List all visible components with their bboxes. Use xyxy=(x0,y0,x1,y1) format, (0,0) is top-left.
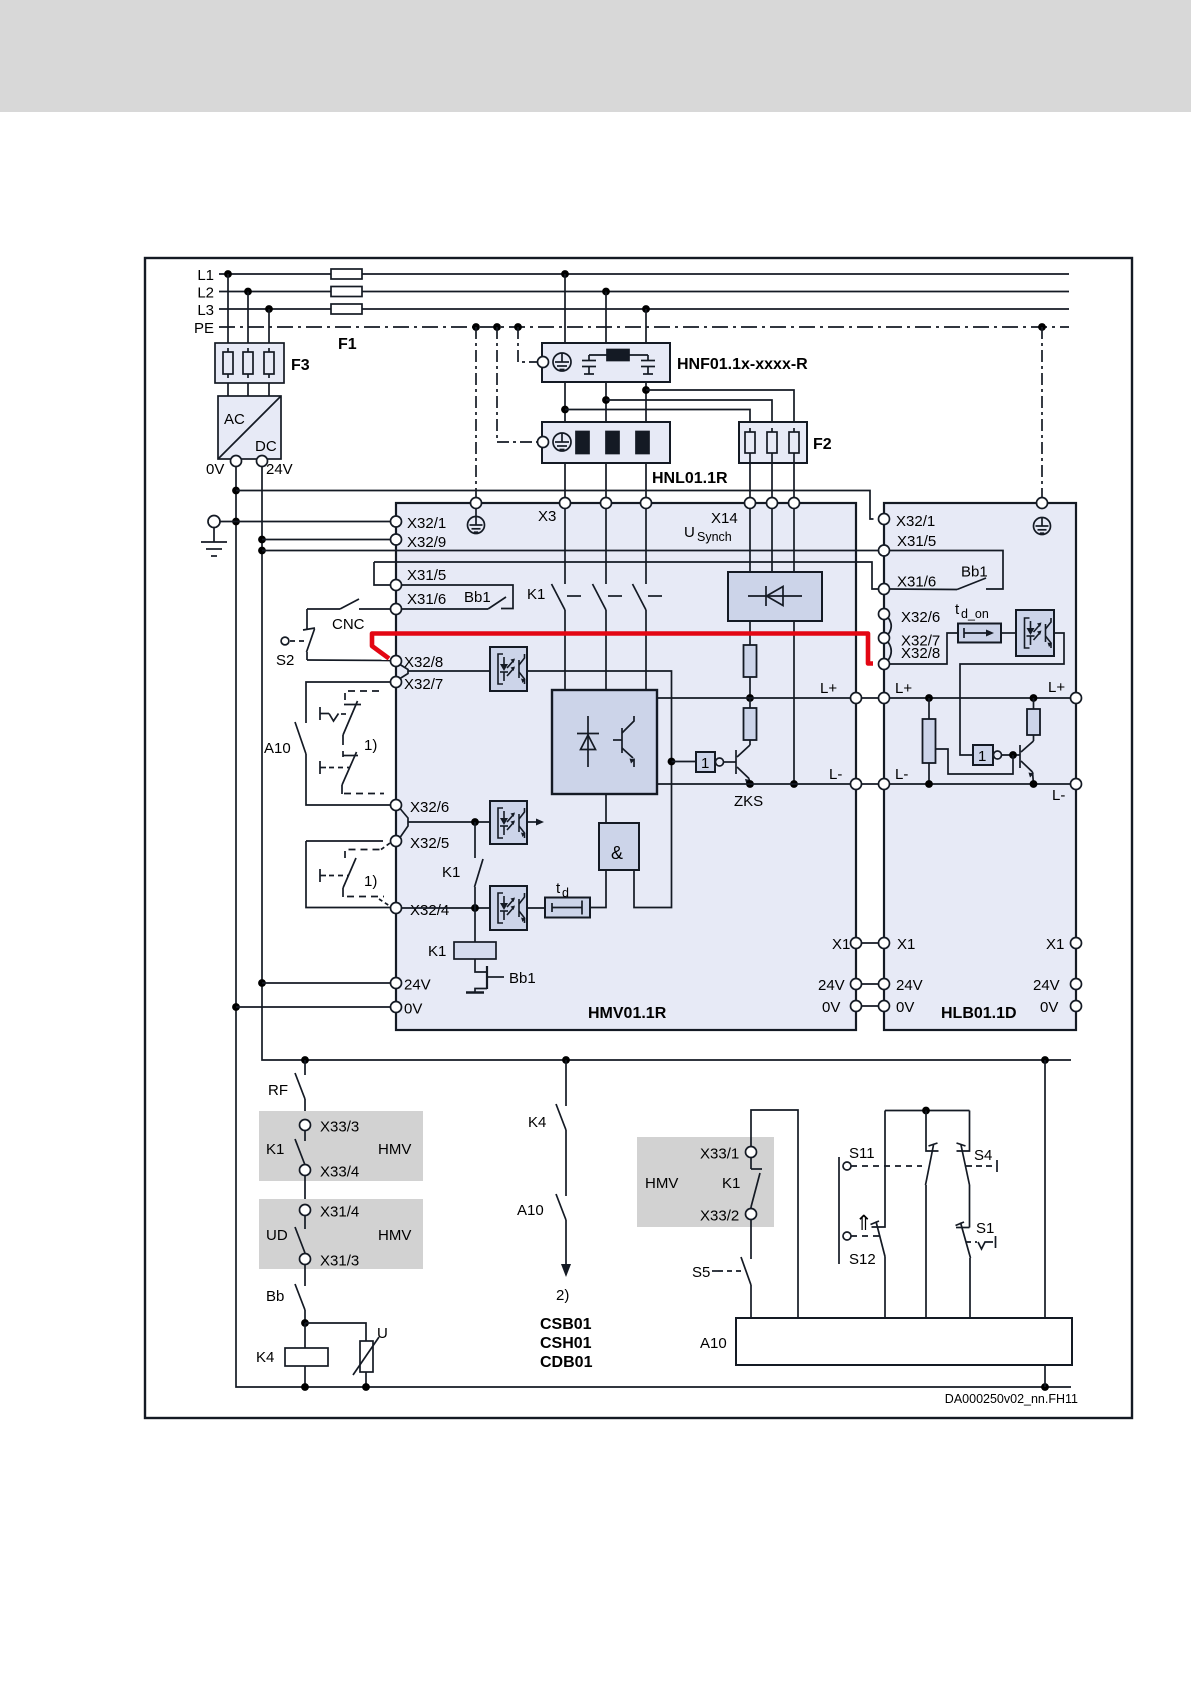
svg-text:1): 1) xyxy=(364,873,377,890)
wire X32/4 to optocoupler3 xyxy=(402,907,491,909)
terminal HLB X31/6 xyxy=(879,584,890,595)
S5 actuator dashes xyxy=(712,1270,744,1272)
svg-text:CSH01: CSH01 xyxy=(540,1335,592,1352)
wire 24V to HLB X31/5 xyxy=(262,550,879,552)
terminal X14-1 xyxy=(745,498,756,509)
svg-text:S5: S5 xyxy=(692,1264,710,1281)
switch S12 actuator xyxy=(843,1232,881,1240)
svg-text:S2: S2 xyxy=(276,652,294,669)
gate 1 HLB xyxy=(973,745,1002,765)
delay element td_on xyxy=(958,624,1001,643)
contact S12 xyxy=(871,1111,886,1319)
S1 actuator dash xyxy=(966,1236,996,1249)
svg-text:Bb: Bb xyxy=(266,1288,284,1305)
svg-text:S12: S12 xyxy=(849,1251,876,1268)
terminal X33/1 xyxy=(746,1147,757,1158)
wire Ra to L+ xyxy=(749,677,751,698)
junction 0V-module xyxy=(232,1003,240,1011)
synch rectifier block xyxy=(728,572,822,621)
wire merge to optocoupler1 xyxy=(408,670,490,672)
wires X14 into synch rectifier xyxy=(750,509,794,573)
svg-text:X32/9: X32/9 xyxy=(407,534,446,551)
svg-text:L+: L+ xyxy=(895,680,912,697)
junction gate1 input xyxy=(668,758,676,766)
module HLB01.1D body xyxy=(884,503,1076,1030)
terminal HMV X32/6 xyxy=(391,800,402,811)
svg-text:L-: L- xyxy=(895,766,908,783)
svg-text:ZKS: ZKS xyxy=(734,793,763,810)
wire 0V rail vertical+bottom xyxy=(236,467,1071,1388)
wire L- link between modules xyxy=(862,783,879,785)
svg-text:X1: X1 xyxy=(832,936,850,953)
svg-text:⇑: ⇑ xyxy=(855,1212,873,1235)
jumper X32/6-X32/7 xyxy=(888,618,891,635)
junction bottom rail A10 xyxy=(1041,1383,1049,1391)
terminal HMV PE top xyxy=(471,498,482,509)
wire td_on to opto xyxy=(1001,632,1016,634)
contact K1 mid xyxy=(475,822,484,908)
svg-text:X33/4: X33/4 xyxy=(320,1164,359,1181)
contact Bb xyxy=(295,1265,305,1324)
svg-text:Bb1: Bb1 xyxy=(464,589,491,606)
choke HNL01.1R xyxy=(538,422,671,463)
wire L- HLB internal xyxy=(890,783,1071,785)
svg-text:1: 1 xyxy=(978,748,986,765)
svg-text:d_on: d_on xyxy=(961,607,989,621)
junction PE-1 xyxy=(472,323,480,331)
terminal HLB L+ right xyxy=(1071,693,1082,704)
wire L2 down through filters xyxy=(605,292,607,498)
wire A10 to X32/6 xyxy=(306,754,391,805)
svg-text:K4: K4 xyxy=(256,1349,274,1366)
terminal HMV 0V right xyxy=(851,1001,862,1012)
junction bottom rail U xyxy=(362,1383,370,1391)
wire HNF to F2 fuse2 xyxy=(606,400,772,432)
junction L2-F3 xyxy=(244,288,252,296)
optocoupler U-opto3 (X32/4) xyxy=(490,886,527,930)
junction L3-HNF xyxy=(642,305,650,313)
svg-text:HNF01.1x-xxxx-R: HNF01.1x-xxxx-R xyxy=(677,356,808,373)
svg-text:24V: 24V xyxy=(1033,977,1060,994)
terminal HMV X31/6 xyxy=(391,604,402,615)
svg-text:K1: K1 xyxy=(722,1175,740,1192)
contact UD xyxy=(295,1216,305,1254)
svg-text:X32/1: X32/1 xyxy=(407,515,446,532)
junction L1-HNF xyxy=(561,270,569,278)
terminal 24V of AC/DC xyxy=(257,456,268,467)
svg-text:24V: 24V xyxy=(404,977,431,994)
terminal HLB X1 left xyxy=(879,938,890,949)
terminal HLB L+ left xyxy=(879,693,890,704)
S-group top bar xyxy=(885,1110,970,1112)
junction HNF-L2 out xyxy=(602,396,610,404)
fuse F1 on L3 xyxy=(331,304,362,314)
terminal HMV 24V xyxy=(391,978,402,989)
contact K1 phase2 xyxy=(593,509,623,691)
varistor U xyxy=(353,1337,379,1387)
junction L3-F3 xyxy=(265,305,273,313)
contact Bb1 bottom of K1 coil xyxy=(466,959,504,993)
resistor Rb xyxy=(744,698,757,740)
svg-text:1): 1) xyxy=(364,737,377,754)
svg-text:AC: AC xyxy=(224,411,245,428)
terminal HMV X1 xyxy=(851,938,862,949)
terminal HMV X32/5 xyxy=(391,836,402,847)
junction right leg L- xyxy=(790,780,798,788)
relay coil K1 xyxy=(454,908,496,959)
fuse block F3 xyxy=(215,343,284,383)
junction opto2 tap xyxy=(471,818,479,826)
contact A10 left xyxy=(295,722,306,754)
svg-text:X32/8: X32/8 xyxy=(404,654,443,671)
svg-text:X33/3: X33/3 xyxy=(320,1119,359,1136)
wire 24V link xyxy=(862,983,879,985)
svg-text:X31/6: X31/6 xyxy=(407,591,446,608)
svg-text:X32/1: X32/1 xyxy=(896,513,935,530)
terminal X31/4 xyxy=(300,1205,311,1216)
interlock contact block 1) upper xyxy=(320,691,384,794)
module HMV01.1R body xyxy=(396,503,856,1030)
svg-text:CSB01: CSB01 xyxy=(540,1316,592,1333)
svg-text:HMV01.1R: HMV01.1R xyxy=(588,1005,667,1022)
transistor HLB xyxy=(1020,735,1034,784)
mains filter HNF01.1x xyxy=(538,343,671,382)
S4 actuator dash xyxy=(966,1160,997,1172)
svg-text:2): 2) xyxy=(556,1287,569,1304)
gray box HMV X33 xyxy=(259,1111,423,1181)
svg-text:L2: L2 xyxy=(197,285,214,302)
svg-text:U: U xyxy=(377,1325,388,1342)
junction PE-3 xyxy=(514,323,522,331)
contact K1 aux xyxy=(295,1131,305,1166)
terminal HMV X32/1 xyxy=(391,516,402,527)
svg-text:PE: PE xyxy=(194,320,214,337)
wire ground to HMV X32/1 xyxy=(220,521,391,523)
wire R1 tap to base xyxy=(936,749,1014,774)
svg-text:L3: L3 xyxy=(197,302,214,319)
junction PE-right xyxy=(1038,323,1046,331)
svg-text:HMV: HMV xyxy=(645,1175,678,1192)
svg-text:CDB01: CDB01 xyxy=(540,1354,593,1371)
terminal HMV L- xyxy=(851,779,862,790)
junction Bb-K4 xyxy=(301,1319,309,1327)
optocoupler HLB xyxy=(1016,610,1054,656)
wire HNF to F2 fuse3 xyxy=(646,390,794,432)
terminal HMV X32/8 xyxy=(391,656,402,667)
terminal HLB L- right xyxy=(1071,779,1082,790)
terminal HMV X32/7 xyxy=(391,677,402,688)
wire L1 xyxy=(197,267,1069,284)
switch S2 xyxy=(303,609,391,661)
wire HNF to F2 fuse1 xyxy=(565,410,750,433)
wire 24V rail vertical+lower rail xyxy=(262,467,1071,1061)
relay coil K4 xyxy=(285,1323,328,1387)
junction HLB L- b xyxy=(1030,780,1038,788)
svg-text:X32/8: X32/8 xyxy=(901,645,940,662)
terminal HLB 0V right xyxy=(1071,1001,1082,1012)
terminal HLB X32/6 xyxy=(879,609,890,620)
wire L2 xyxy=(197,285,1069,302)
header gray band xyxy=(0,0,1191,112)
svg-text:S1: S1 xyxy=(976,1220,994,1237)
svg-text:1: 1 xyxy=(701,755,709,772)
svg-text:0V: 0V xyxy=(1040,999,1058,1016)
wire L3 down through filters xyxy=(645,309,647,498)
junction ZKS xyxy=(746,780,754,788)
svg-text:Bb1: Bb1 xyxy=(961,564,988,581)
junction bottom rail K4 xyxy=(301,1383,309,1391)
junction 0V-a xyxy=(232,487,240,495)
wire X33/4 to X31/4 xyxy=(304,1176,306,1205)
schematic frame xyxy=(145,258,1132,1418)
svg-text:0V: 0V xyxy=(206,461,224,478)
svg-text:X33/2: X33/2 xyxy=(700,1208,739,1225)
terminal 0V of AC/DC xyxy=(231,456,242,467)
junction 24V-X315 xyxy=(258,547,266,555)
PE dash-dot drop to HMV xyxy=(475,327,477,498)
S11 S12 mechanical link xyxy=(838,1157,840,1264)
svg-text:HLB01.1D: HLB01.1D xyxy=(941,1005,1017,1022)
terminal HLB L- left xyxy=(879,779,890,790)
svg-text:X32/7: X32/7 xyxy=(404,676,443,693)
wire X32/8 to td_on xyxy=(890,633,959,664)
junction 0V-b xyxy=(232,518,240,526)
optocoupler U-opto1 (X32/8-X32/7) xyxy=(490,647,527,691)
PE dash-dot drop to HLB xyxy=(1041,327,1043,498)
svg-text:K1: K1 xyxy=(266,1141,284,1158)
wire HMV X31/5 loop xyxy=(374,562,391,585)
junction HNF-L1 out xyxy=(561,406,569,414)
svg-text:0V: 0V xyxy=(404,1001,422,1018)
wire td to AND gate xyxy=(590,870,606,908)
delay element td xyxy=(545,898,590,918)
wire 0V link xyxy=(862,1005,879,1007)
contact S4 xyxy=(957,1111,970,1228)
contact K4 xyxy=(556,1060,566,1196)
wire L3 to F3 xyxy=(268,309,270,343)
junction 24V-X329 xyxy=(258,536,266,544)
fuse block F2 xyxy=(739,422,807,463)
wire L1 to F3 xyxy=(227,274,229,343)
wire L3 xyxy=(197,302,1069,319)
svg-text:A10: A10 xyxy=(700,1335,727,1352)
wire gate1 to base xyxy=(724,761,737,763)
svg-text:X32/6: X32/6 xyxy=(901,609,940,626)
svg-text:X31/6: X31/6 xyxy=(897,574,936,591)
junction 24V rail RF xyxy=(301,1056,309,1064)
svg-text:X31/3: X31/3 xyxy=(320,1253,359,1270)
wire L+ HMV xyxy=(657,697,851,699)
wire gate1 input xyxy=(672,761,697,763)
svg-text:X32/4: X32/4 xyxy=(410,902,449,919)
svg-text:S4: S4 xyxy=(974,1147,992,1164)
contact K1 X33 xyxy=(751,1158,762,1209)
junction S-bar xyxy=(922,1107,930,1115)
junction PE-2 xyxy=(493,323,501,331)
PE symbol HMV xyxy=(468,509,485,534)
wire X32/7 loop left xyxy=(306,682,391,723)
svg-text:X1: X1 xyxy=(1046,936,1064,953)
wire AND to inverter xyxy=(605,794,607,823)
svg-text:DA000250v02_nn.FH11: DA000250v02_nn.FH11 xyxy=(945,1392,1078,1406)
power supply AC/DC xyxy=(218,396,281,459)
contact Bb1 HMV xyxy=(402,585,514,609)
junction HLB L- a xyxy=(925,780,933,788)
contact S1 xyxy=(956,1222,971,1318)
wire L+ link between modules xyxy=(862,697,879,699)
terminal X3-1 xyxy=(560,498,571,509)
wire X32/6-X32/5 merge xyxy=(400,809,408,838)
terminal X33/3 xyxy=(300,1120,311,1131)
svg-text:RF: RF xyxy=(268,1082,288,1099)
svg-text:X3: X3 xyxy=(538,508,556,525)
gray box HMV X31 xyxy=(259,1199,423,1269)
wire 0V to HLB X32/1 xyxy=(236,491,874,520)
svg-text:X32/6: X32/6 xyxy=(410,799,449,816)
svg-text:A10: A10 xyxy=(517,1202,544,1219)
svg-text:HMV: HMV xyxy=(378,1227,411,1244)
terminal X33/4 xyxy=(300,1165,311,1176)
terminal HMV 24V right xyxy=(851,979,862,990)
resistor HLB R1 xyxy=(923,698,936,784)
svg-text:0V: 0V xyxy=(896,999,914,1016)
svg-text:K1: K1 xyxy=(527,586,545,603)
wire L1 down through filters xyxy=(564,274,566,498)
jumper X32/7-X32/8 xyxy=(888,642,891,661)
terminal X3-3 xyxy=(641,498,652,509)
wire 0V to rail xyxy=(236,1006,391,1008)
svg-text:DC: DC xyxy=(255,438,277,455)
svg-text:F3: F3 xyxy=(291,357,310,374)
contact K1 phase1 xyxy=(552,509,582,691)
svg-text:L1: L1 xyxy=(197,267,214,284)
terminal HMV L+ xyxy=(851,693,862,704)
terminal X14-2 xyxy=(767,498,778,509)
optocoupler U-opto2 (X32/6-X32/5) xyxy=(490,801,527,844)
contact Bb1 HLB xyxy=(890,551,1004,590)
svg-text:X33/1: X33/1 xyxy=(700,1146,739,1163)
fuse F1 on L2 xyxy=(331,287,362,297)
terminal HMV 0V xyxy=(391,1002,402,1013)
svg-text:24V: 24V xyxy=(896,977,923,994)
transistor ZKS xyxy=(736,740,751,784)
wires F3 to AC/DC xyxy=(228,383,269,396)
svg-text:0V: 0V xyxy=(822,999,840,1016)
PE dash-dot drop to HNF xyxy=(518,327,538,362)
wire opto HLB output loop xyxy=(960,633,1064,755)
svg-text:U: U xyxy=(684,524,695,541)
junction L2-HNF xyxy=(602,288,610,296)
junction 24V rail K4 xyxy=(562,1056,570,1064)
AND gate & xyxy=(599,823,639,870)
red safety wire X32/8 link xyxy=(372,634,873,664)
label td xyxy=(556,880,569,900)
svg-text:X32/5: X32/5 xyxy=(410,835,449,852)
svg-text:L-: L- xyxy=(829,766,842,783)
svg-text:X31/4: X31/4 xyxy=(320,1204,359,1221)
svg-text:L+: L+ xyxy=(1048,679,1065,696)
svg-text:d: d xyxy=(562,886,569,900)
svg-text:Bb1: Bb1 xyxy=(509,970,536,987)
contact A10 mid xyxy=(556,1194,566,1264)
junction 24V rail A10 xyxy=(1041,1056,1049,1064)
terminal HLB 24V right xyxy=(1071,979,1082,990)
wire to varistor xyxy=(305,1323,366,1341)
resistor Ra xyxy=(744,645,757,677)
wire L- HMV xyxy=(657,783,851,785)
junction HLB L+ b xyxy=(1030,694,1038,702)
junction X32/4 tap xyxy=(471,904,479,912)
svg-text:&: & xyxy=(611,843,623,863)
terminal HLB PE top xyxy=(1037,498,1048,509)
gate 1 HMV xyxy=(696,752,724,772)
svg-text:HMV: HMV xyxy=(378,1141,411,1158)
terminal X33/2 xyxy=(746,1209,757,1220)
terminal HMV X31/5 xyxy=(391,580,402,591)
terminal HLB 0V left xyxy=(879,1001,890,1012)
gray box HMV K1 X33 xyxy=(637,1137,774,1227)
svg-text:K4: K4 xyxy=(528,1114,546,1131)
wire opto2 output arrow xyxy=(527,819,544,826)
junction HNF-L3 out xyxy=(642,386,650,394)
wire merge to optocoupler2 xyxy=(408,821,490,823)
junction 24V-module xyxy=(258,979,266,987)
wire X1 link xyxy=(862,942,879,944)
terminal HLB X32/1 xyxy=(879,514,890,525)
PE dash-dot drop to HNL xyxy=(497,327,538,442)
arrow down 2) xyxy=(561,1264,571,1277)
resistor HLB R2 xyxy=(1027,698,1040,735)
svg-text:Synch: Synch xyxy=(697,530,732,544)
inverter block xyxy=(552,690,657,794)
device A10 box xyxy=(736,1318,1072,1365)
wire L2 to F3 xyxy=(247,292,249,344)
svg-text:F1: F1 xyxy=(338,336,357,353)
contact CNC xyxy=(307,599,391,609)
junction L1-F3 xyxy=(224,270,232,278)
svg-text:CNC: CNC xyxy=(332,616,365,633)
wire opto1 output xyxy=(527,671,672,908)
label USynch xyxy=(684,524,732,544)
contact S11 xyxy=(926,1111,939,1319)
contact S5 xyxy=(741,1220,751,1319)
junction L+ xyxy=(746,694,754,702)
wire 24V to HMV X32/9 xyxy=(262,539,391,541)
terminal HMV X32/4 xyxy=(391,903,402,914)
wire X33/1 top loop to A10 xyxy=(751,1110,798,1318)
terminal X31/3 xyxy=(300,1254,311,1265)
fuse F1 on L1 xyxy=(331,269,362,279)
S2 actuator circle and dashes xyxy=(281,637,305,645)
wire L+ HLB internal xyxy=(890,697,1071,699)
wire A10 to 24V rail xyxy=(1044,1060,1046,1318)
svg-text:X1: X1 xyxy=(897,936,915,953)
contact K1 phase3 xyxy=(633,509,663,691)
terminal HMV X32/9 xyxy=(391,534,402,545)
label td_on xyxy=(955,601,989,621)
wire rectifier right leg xyxy=(793,621,795,784)
wire rectifier to resistor Ra xyxy=(749,621,751,645)
svg-text:X14: X14 xyxy=(711,510,738,527)
svg-text:X31/5: X31/5 xyxy=(407,567,446,584)
wire 24V to rail xyxy=(262,982,391,984)
svg-text:L-: L- xyxy=(1052,787,1065,804)
terminal HLB X32/7 xyxy=(879,633,890,644)
svg-text:24V: 24V xyxy=(818,977,845,994)
svg-text:HNL01.1R: HNL01.1R xyxy=(652,470,728,487)
junction HLB L+ a xyxy=(925,694,933,702)
PE symbol HLB xyxy=(1034,518,1051,535)
